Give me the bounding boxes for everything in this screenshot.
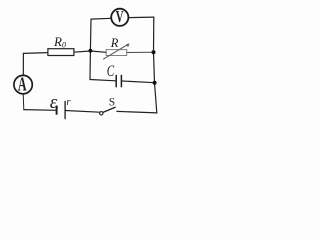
- junction node mid: [89, 49, 93, 53]
- wire C-left: [90, 80, 115, 81]
- wire right-rail: [154, 17, 157, 113]
- wire bottom-left: [24, 109, 56, 112]
- rheostat R box: [106, 50, 127, 56]
- junction node right-R: [152, 50, 156, 54]
- wire R0-left: [23, 52, 48, 55]
- wire R-branch-right: [127, 51, 154, 53]
- svg-text:R: R: [110, 36, 119, 50]
- wire mid-vertical-top: [89, 19, 92, 51]
- wire left-rail-top: [22, 53, 24, 75]
- rheostat R arrow: [103, 44, 128, 59]
- junction node right-C: [153, 81, 157, 85]
- wire bottom-mid: [65, 111, 99, 113]
- wire top-right: [128, 16, 154, 19]
- svg-text:V: V: [116, 8, 124, 27]
- svg-text:A: A: [18, 72, 27, 95]
- wire C-right: [122, 81, 155, 83]
- wire R0-right: [74, 51, 91, 52]
- voltmeter U-V: [111, 9, 128, 26]
- resistor R0: [48, 49, 74, 56]
- wire left-rail-bottom: [22, 94, 25, 110]
- battery short plate: [56, 106, 58, 115]
- wire mid-vertical-bottom: [89, 51, 91, 80]
- wire R-branch-left: [90, 51, 106, 52]
- ammeter U-A: [14, 75, 32, 93]
- svg-text:S: S: [109, 97, 115, 109]
- wire top-left: [91, 17, 111, 20]
- svg-text:C: C: [107, 62, 115, 79]
- battery long plate: [64, 101, 66, 119]
- switch S pivot: [100, 112, 103, 115]
- capacitor C plates: [116, 75, 121, 87]
- wire bottom-right: [117, 111, 157, 113]
- svg-text:,: ,: [56, 96, 59, 110]
- switch S lever: [103, 107, 116, 112]
